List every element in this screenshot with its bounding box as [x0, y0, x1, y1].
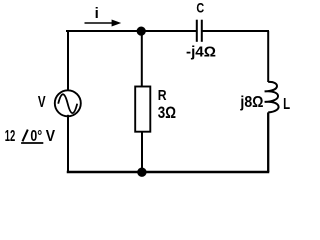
wire: left branch below source: [67, 116, 69, 172]
angle underline: [21, 142, 43, 144]
voltage source sine wave: [58, 94, 77, 113]
wire: top-right segment (capacitor right plate to right corner): [203, 30, 269, 32]
wire: middle branch bottom (resistor to node B): [141, 132, 143, 172]
svg-text:L: L: [283, 96, 290, 113]
capacitor C left plate: [196, 20, 198, 42]
wire: middle branch top (node A to resistor): [141, 31, 143, 86]
svg-text:V: V: [46, 128, 56, 145]
svg-text:j8Ω: j8Ω: [239, 94, 263, 111]
wire: left branch above source: [67, 31, 69, 91]
wire: right branch above inductor: [267, 31, 269, 82]
inductor L (coil): [265, 82, 279, 112]
capacitor C right plate: [201, 20, 203, 42]
voltage source V (AC source circle): [55, 90, 81, 116]
svg-text:-j4Ω: -j4Ω: [186, 45, 216, 61]
svg-text:3Ω: 3Ω: [158, 104, 176, 122]
wire: top-left segment (source top corner to node A): [67, 30, 141, 32]
node A (top junction dot): [137, 27, 146, 36]
current arrow i (shaft): [85, 22, 114, 24]
node B (bottom junction dot): [137, 168, 146, 177]
resistor R (box): [135, 87, 150, 132]
svg-text:V: V: [38, 94, 46, 111]
wire: top-middle segment (node A to capacitor left plate): [141, 30, 196, 32]
svg-text:R: R: [158, 87, 167, 104]
wire: right branch below inductor: [267, 112, 269, 172]
wire: bottom side: [68, 171, 268, 174]
label angle slash: [23, 130, 28, 142]
svg-text:12: 12: [5, 128, 16, 145]
current arrow i (head): [112, 20, 122, 27]
svg-text:C: C: [196, 0, 204, 16]
svg-text:i: i: [95, 5, 99, 22]
